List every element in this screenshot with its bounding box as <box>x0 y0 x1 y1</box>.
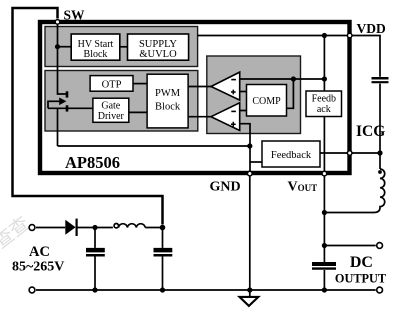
pin ICG <box>347 151 352 156</box>
diode D1 <box>65 220 75 235</box>
gray block comparator group <box>207 56 301 134</box>
arrow line <box>48 100 60 102</box>
arrowhead <box>59 98 66 106</box>
box COMP <box>247 85 287 117</box>
svg-text:OTP: OTP <box>102 80 122 91</box>
box Feedback horizontal <box>262 141 320 167</box>
wire SW return (outer left loop) <box>13 8 163 225</box>
wire diode to inductor <box>77 227 113 229</box>
svg-text:Feedback: Feedback <box>271 150 312 161</box>
box PWM Block <box>147 74 188 128</box>
wire PWM to comparator2 <box>188 116 211 118</box>
terminal AC top <box>29 225 35 231</box>
node rail cap2 <box>160 287 165 292</box>
wire feedback vertical top <box>323 36 325 92</box>
ground <box>249 290 251 296</box>
node ICG junction <box>377 150 382 155</box>
node rail gnd <box>247 287 252 292</box>
box OTP <box>90 76 133 92</box>
wire SW to drain <box>58 25 68 95</box>
IC AP8506 outline <box>40 22 350 173</box>
svg-text:Block: Block <box>84 49 108 60</box>
svg-text:VDD: VDD <box>357 21 386 36</box>
wire Feedback to ICG pin <box>320 152 348 154</box>
box HV Start Block <box>71 34 120 60</box>
svg-text:AC: AC <box>29 244 50 260</box>
capacitor C3 (VDD) <box>372 77 389 80</box>
inductor L1 (primary winding) <box>114 224 118 228</box>
node GND-source junction <box>247 143 252 148</box>
svg-text:85~265V: 85~265V <box>12 260 64 275</box>
gray block mid (PWM group) <box>45 71 198 132</box>
op-amp comparator1 <box>211 72 240 100</box>
wire inductor to node <box>145 227 162 229</box>
wire source down <box>57 108 59 146</box>
wire COMP output <box>287 79 294 108</box>
pin GND <box>248 171 253 176</box>
node SW-inductor junction <box>160 225 166 231</box>
svg-text:OUTPUT: OUTPUT <box>335 271 387 285</box>
pin VDD <box>347 33 352 38</box>
wire VOUT down <box>323 176 325 262</box>
wire cap to rail <box>323 270 325 290</box>
wire to DC output + <box>324 245 375 247</box>
wire VDD internal <box>197 35 347 37</box>
svg-text:COMP: COMP <box>252 96 281 107</box>
wire comparator2 plus down <box>240 124 250 173</box>
svg-text:Block: Block <box>155 101 181 112</box>
node rail cap1 <box>92 287 97 292</box>
wire VDD external to cap <box>352 36 380 77</box>
node rail output <box>322 287 327 292</box>
svg-text:&UVLO: &UVLO <box>139 49 177 60</box>
source bar <box>66 105 69 111</box>
wire node to HV Start <box>58 46 72 48</box>
svg-text:ICG: ICG <box>356 123 385 140</box>
box SUPPLY &UVLO <box>128 34 189 60</box>
wire PWM to comparator1 <box>188 86 211 88</box>
svg-text:AP8506: AP8506 <box>65 153 120 172</box>
wire HV to SUPPLY <box>120 46 128 48</box>
capacitor C4 (output) <box>312 262 336 266</box>
node cap1 junction <box>92 225 97 230</box>
svg-text:GND: GND <box>210 180 241 195</box>
node comp1-COMP junction <box>291 76 296 81</box>
box Gate Driver <box>93 98 129 122</box>
node SW-HV junction <box>55 44 60 49</box>
svg-text:SW: SW <box>64 8 86 23</box>
terminal DC + <box>377 243 383 249</box>
wire comparator1 minus to feedback node <box>240 78 325 80</box>
node DC out junction <box>322 243 327 248</box>
wire comparator1 plus to COMP <box>240 91 247 93</box>
wire bottom rail <box>36 289 376 291</box>
capacitor C2 <box>162 228 164 248</box>
svg-text:ack: ack <box>317 104 331 115</box>
wire GND node to Feedback box <box>250 161 262 163</box>
svg-text:PWM: PWM <box>155 88 181 99</box>
wire Gate Driver to PWM <box>129 111 147 113</box>
wire GND pin down <box>249 176 251 290</box>
node VDD-feedback junction <box>322 33 327 38</box>
wire ICG pin to node <box>352 152 380 154</box>
wire AC to diode <box>36 227 65 229</box>
terminal AC bottom <box>29 287 35 293</box>
node transformer-VOUT junction <box>322 210 327 215</box>
terminal DC - <box>377 287 383 293</box>
wire feedback vertical bottom to VOUT pin <box>323 117 325 172</box>
svg-text:Driver: Driver <box>98 111 125 122</box>
gate wire to driver <box>48 107 93 109</box>
svg-text:DC: DC <box>350 254 373 271</box>
loop left vertical <box>47 101 49 109</box>
gray block top (HV/Supply group) <box>45 27 198 67</box>
op-amp comparator2 <box>211 103 240 131</box>
pin SW <box>55 20 60 25</box>
capacitor C1 <box>94 228 96 248</box>
wire cap to ICG node <box>379 84 381 153</box>
inductor L2 (secondary winding) <box>379 153 381 169</box>
wire OTP to PWM <box>133 83 147 85</box>
wire source to GND node <box>58 145 250 147</box>
wire comparator2 minus to COMP <box>240 110 247 112</box>
box Feedback vertical (Feedb ack) <box>306 91 342 117</box>
drain bar <box>66 91 69 97</box>
node feedback line junction <box>322 76 327 81</box>
pin VOUT <box>322 171 327 176</box>
